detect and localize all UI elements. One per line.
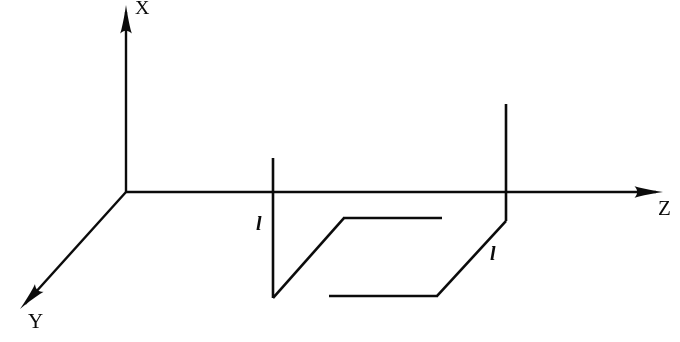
X axis arrowhead — [120, 5, 132, 34]
Y axis arrowhead — [16, 284, 44, 313]
X axis shaft — [125, 12, 127, 192]
svg-text:Y: Y — [28, 309, 43, 333]
Y axis shaft — [25, 192, 126, 304]
wire: right diagonal segment — [437, 221, 506, 296]
svg-text:X: X — [135, 0, 150, 19]
wire: lower horizontal line segment — [329, 295, 438, 298]
Z axis shaft — [126, 191, 656, 193]
wire: upper horizontal line segment — [343, 217, 442, 220]
svg-text:Z: Z — [658, 196, 671, 220]
svg-text:l: l — [490, 243, 496, 265]
wire: right vertical element — [505, 104, 508, 221]
svg-text:l: l — [256, 213, 262, 235]
wire: left diagonal segment — [273, 218, 344, 298]
Z axis arrowhead — [635, 186, 664, 198]
wire: left vertical element — [272, 158, 275, 298]
